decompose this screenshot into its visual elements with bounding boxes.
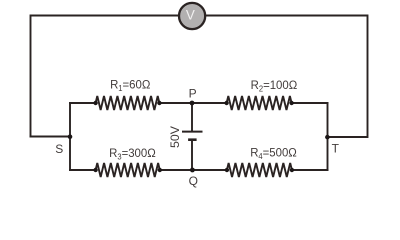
svg-text:S: S <box>55 142 63 156</box>
svg-text:R1=60Ω: R1=60Ω <box>110 78 151 93</box>
svg-text:R3=300Ω: R3=300Ω <box>109 147 156 162</box>
svg-text:Q: Q <box>189 174 198 188</box>
svg-text:P: P <box>189 87 197 101</box>
svg-text:T: T <box>332 141 340 155</box>
svg-text:R4=500Ω: R4=500Ω <box>250 146 297 161</box>
svg-text:V: V <box>186 8 195 23</box>
svg-text:R2=100Ω: R2=100Ω <box>251 79 298 94</box>
svg-text:50V: 50V <box>168 125 182 148</box>
